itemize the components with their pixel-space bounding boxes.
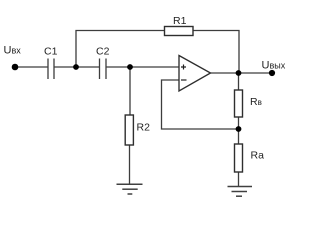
svg-text:Uвх: Uвх <box>4 45 22 57</box>
svg-text:Rв: Rв <box>250 96 262 108</box>
svg-text:R2: R2 <box>137 122 151 134</box>
svg-text:C1: C1 <box>44 46 58 58</box>
svg-text:Ra: Ra <box>251 150 265 162</box>
svg-text:C2: C2 <box>96 46 110 58</box>
svg-text:Uвых: Uвых <box>262 60 286 72</box>
svg-text:R1: R1 <box>173 15 187 27</box>
